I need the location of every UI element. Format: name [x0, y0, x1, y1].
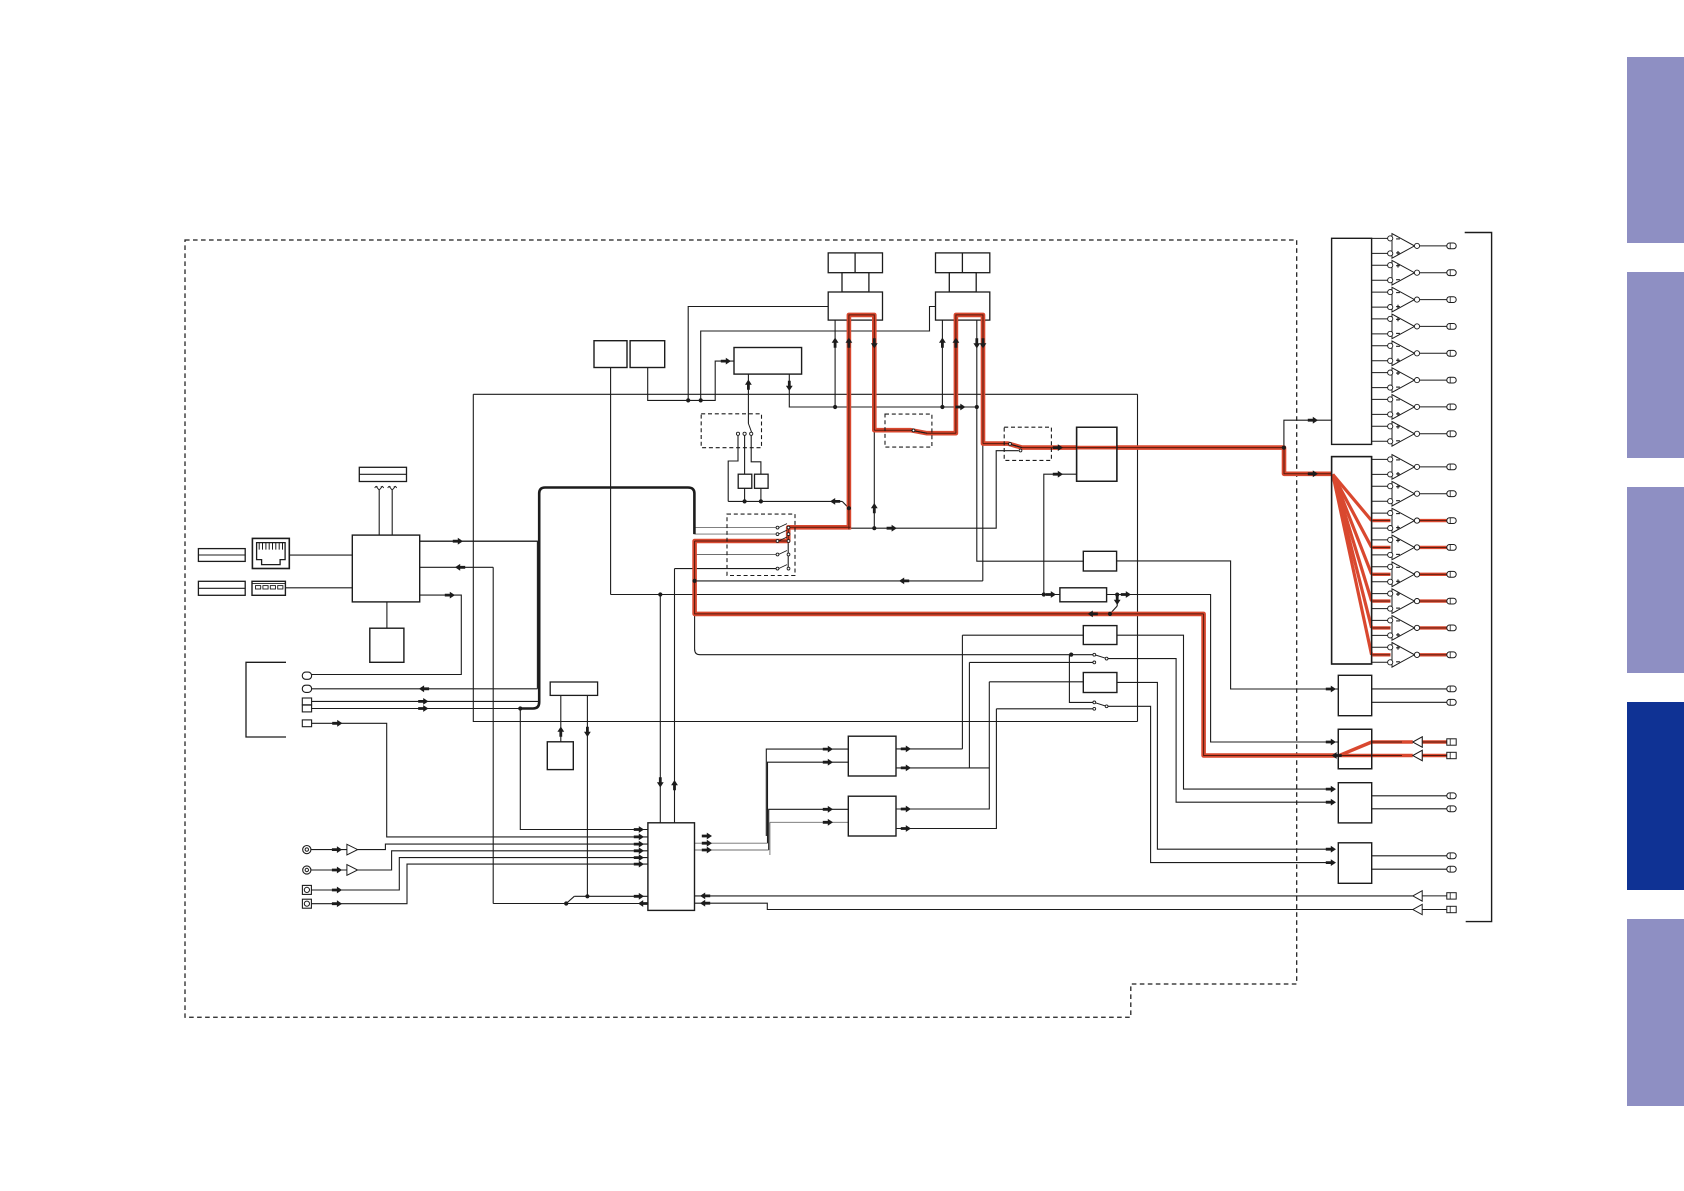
jack J8 — [302, 885, 311, 894]
wire jack J4 line — [312, 708, 521, 710]
arrow box B in1 — [1326, 739, 1336, 746]
wire box D out jack 2 — [1372, 868, 1447, 870]
RJ45 ethernet jack — [252, 538, 289, 568]
jack box C out1 — [1447, 793, 1456, 799]
arrow box A in — [1326, 686, 1336, 693]
wire effect box b drop — [760, 488, 762, 501]
2tr input amp row 2 — [1413, 904, 1422, 914]
wire CPU to sub box — [386, 602, 388, 628]
arrow M2 out2 — [901, 825, 911, 832]
channel switch row1 — [779, 524, 788, 528]
node alt join red — [693, 579, 697, 583]
effect box a — [738, 474, 752, 488]
wire bus top horizontal — [473, 393, 1137, 395]
wire USB to CPU — [285, 587, 352, 589]
wire fader1 black core drop — [873, 320, 875, 528]
arrow to jack J2 — [419, 685, 429, 692]
DAC1 row 8 amplifier and jack — [1372, 425, 1388, 427]
wire jack J9 to ADC — [311, 864, 648, 904]
DAC1 row 7 amplifier and jack — [1372, 398, 1388, 400]
wire DA1 input — [1284, 420, 1332, 447]
wire fader1 black drop A — [834, 320, 836, 407]
fader module 2 mid box — [949, 273, 976, 292]
arrow jack J4 line — [418, 705, 428, 712]
arrow black core up — [871, 503, 878, 513]
node comp stub top — [1115, 593, 1119, 597]
USB connector — [252, 581, 285, 595]
node red DA1 tap — [1282, 446, 1286, 450]
wire effect bus to fader1 lever — [728, 500, 842, 502]
arrow ADC in4 — [634, 847, 644, 854]
wire switch A drop — [1069, 655, 1093, 703]
wire SRC box to monitor A — [1117, 561, 1339, 689]
wire mixer1 out2 riser — [968, 662, 970, 768]
DAC2 row 8 amplifier and jack — [1372, 646, 1388, 648]
node J4 branch — [518, 706, 522, 710]
page tab bar 4 (active, dark) — [1627, 702, 1684, 890]
insert switch lever box1 — [748, 424, 751, 433]
channel switch row5 — [779, 565, 788, 569]
comp flat box — [1060, 588, 1107, 602]
output group bracket — [1465, 233, 1492, 922]
wire switch B out — [1108, 706, 1328, 862]
arrow ADC out to CPU — [638, 900, 648, 907]
channel switch row2 — [779, 530, 788, 534]
node red stub — [1108, 612, 1112, 616]
arrow fader2 red down — [980, 338, 987, 348]
fader module 2 lower box — [936, 292, 990, 320]
wire J4 branch down to ADC in1 — [520, 709, 648, 830]
wire J7 amp out — [358, 851, 648, 870]
monitor box A — [1338, 675, 1371, 715]
arrow main bus into comp — [1046, 591, 1056, 598]
red highlighted path: channel select to stereo bus — [695, 527, 1336, 755]
arrow ADC in3 — [634, 841, 644, 848]
arrow fader2 left up — [939, 338, 946, 348]
wire ADC in switch diagonal — [566, 896, 574, 903]
wire jack J3 line — [312, 700, 540, 702]
wire ST box right drop — [586, 695, 588, 896]
arrow DA2 red in — [1308, 470, 1318, 477]
jack box C out2 — [1447, 806, 1456, 812]
mixer box M2 — [848, 796, 896, 836]
wire main bus to comp box — [611, 594, 1060, 596]
gray ADC out 2 — [695, 842, 768, 844]
wire box T2 drop — [648, 361, 734, 400]
wire monitor line 5 — [674, 569, 676, 823]
arrow ADC in2 — [634, 834, 644, 841]
node bus407 b — [940, 405, 944, 409]
wire antenna 1 feed — [378, 490, 380, 535]
arrow J9 line — [332, 900, 342, 907]
node switchA feed — [1069, 653, 1073, 657]
node bus407 a — [833, 405, 837, 409]
wire RJ45 to CPU — [289, 554, 352, 556]
arrow DSP right out down — [786, 381, 793, 391]
arrow CPU out3 — [445, 592, 455, 599]
node main bus eq — [1042, 592, 1046, 596]
wire comp out stub down — [1116, 595, 1118, 607]
page tab bar 5 — [1627, 919, 1684, 1106]
jack J9 — [302, 899, 311, 908]
wire box A out jack 2 — [1372, 701, 1447, 703]
wire effect box a drop — [744, 488, 746, 501]
jack J3 — [302, 698, 311, 705]
wire line 5 horizontal — [675, 568, 778, 570]
wire box A out jack 1 — [1372, 688, 1447, 690]
box B input amp row 1 — [1413, 737, 1422, 747]
wire ADC return riser — [492, 567, 494, 903]
wire CPU out3 to jack J1 — [312, 595, 462, 674]
antenna 1 — [375, 486, 384, 490]
output select switch A — [1096, 655, 1106, 658]
arrow comp stub down — [1114, 595, 1121, 605]
node main bus adc — [658, 592, 662, 596]
rec box D — [1338, 843, 1371, 884]
wire monitor select feed h — [700, 654, 1069, 656]
node bus407 c — [975, 405, 979, 409]
arrow M1 in2 — [823, 759, 833, 766]
mixer box M1 — [848, 736, 896, 776]
red box B upper out — [1372, 740, 1402, 743]
wire antenna 2 feed — [391, 490, 393, 535]
arrow jack J3 line — [418, 698, 428, 705]
DAC1 row 5 amplifier and jack — [1372, 345, 1388, 347]
red U inside fader2 — [956, 315, 983, 322]
arrow M1 out2 — [901, 765, 911, 772]
wire switch A in stub — [1069, 654, 1093, 656]
dashed channel switch box 4 — [727, 514, 795, 575]
rec box C — [1338, 783, 1371, 823]
network connector bar 2 — [198, 581, 245, 595]
wire DSP right output down — [789, 374, 977, 407]
arrow ADC in6 — [634, 861, 644, 868]
channel switch row3 (red) — [779, 537, 788, 541]
link switch in box2 — [911, 430, 927, 433]
wire jack J8 to ADC — [311, 858, 648, 890]
arrow J8 line — [332, 887, 342, 894]
wire DSP left output riser — [747, 374, 749, 423]
wire switch common vertical — [787, 528, 789, 569]
arrow fader2 inner down — [973, 338, 980, 348]
wire ADC out-left to CPU riser — [493, 903, 648, 905]
wire grp box in h — [989, 681, 1083, 683]
DAC1 row 2 amplifier and jack — [1372, 264, 1388, 266]
wire box T1 drop to main bus — [610, 368, 612, 595]
grp box — [1083, 673, 1117, 693]
arrow ADC out1 — [702, 833, 712, 840]
2tr input amp row 1 — [1413, 891, 1422, 901]
wire fader2 inner black to SRC box — [977, 320, 1084, 561]
aux box — [1083, 626, 1117, 645]
arrow M1 out1 — [901, 746, 911, 753]
DAC2 row 2 amplifier and jack — [1372, 485, 1388, 487]
output select switch B — [1096, 703, 1106, 706]
wire ADC gray riser 1 — [766, 749, 827, 836]
wire ADC return to CPU in — [420, 566, 494, 568]
DSP control box — [734, 348, 802, 375]
wire alt path to red junction — [695, 580, 983, 582]
jack J2 (phones) — [302, 685, 311, 692]
arrow box C in1 — [1326, 786, 1336, 793]
effect box b — [755, 474, 769, 488]
arrow red into EQ — [1053, 444, 1063, 451]
channel switch row4 — [779, 551, 788, 555]
node core join — [872, 526, 876, 530]
jack box D out1 — [1447, 853, 1456, 859]
top box T1 — [594, 341, 627, 368]
arrow box B in2 left — [1332, 752, 1342, 759]
wire RCA jack J6 to ADC — [311, 849, 347, 851]
arrow ADC return1 into box — [700, 893, 710, 900]
wire stub lever to red — [1110, 606, 1117, 614]
EQ box — [1077, 427, 1117, 481]
wire box C out jack 1 — [1372, 795, 1447, 797]
node ADC in switch b — [564, 901, 568, 905]
wireless LCD display — [359, 467, 406, 481]
dashed link switch box 2 — [885, 414, 932, 447]
ST sub box — [547, 742, 573, 770]
arrow ADC out2 — [702, 840, 712, 847]
wire CPU out1 to jack J2 — [420, 541, 538, 689]
jack box D out2 — [1447, 866, 1456, 872]
wire bus vertical left — [473, 394, 1137, 721]
DAC1 row 3 amplifier and jack — [1372, 291, 1388, 293]
red pass inside EQ box — [1077, 446, 1117, 450]
arrow ADC return2 into box — [700, 900, 710, 907]
DAC1 row 4 amplifier and jack — [1372, 318, 1388, 320]
gray channel line 4 — [694, 554, 777, 556]
arrow ADC in7 — [634, 893, 644, 900]
arrow CPU out1 — [453, 538, 463, 545]
input group bracket — [246, 662, 286, 737]
antenna 2 — [388, 486, 397, 490]
wire bus branch down to ADC — [659, 595, 661, 823]
RCA jack J7 — [303, 866, 311, 874]
CPU box — [352, 535, 419, 602]
wire M2 out2 riser — [896, 709, 996, 829]
DAC1 row 6 amplifier and jack — [1372, 372, 1388, 374]
arrow box D in1 — [1326, 846, 1336, 853]
arrow DA1 in — [1308, 417, 1318, 424]
jack J1 (phones) — [302, 672, 311, 679]
arrow red long left — [1088, 611, 1098, 618]
wire insert switch drop 2 — [744, 435, 746, 474]
box B input amp row 2 — [1413, 750, 1422, 760]
jack box A out2 — [1447, 699, 1456, 705]
network connector bar 1 — [198, 549, 245, 562]
wire 2tr line 2 — [695, 903, 1413, 909]
wire switch A out — [1107, 659, 1328, 803]
ST flat box — [550, 682, 597, 695]
wire fader2 black drop A — [941, 320, 943, 407]
node ADC in switch a — [585, 894, 589, 898]
wire J6 amp out — [358, 844, 648, 850]
arrow ADC in1 — [634, 826, 644, 833]
wire mixer1 out1 riser — [961, 635, 963, 749]
wire M1 out2 — [896, 767, 989, 769]
arrow ST left up — [557, 727, 564, 737]
wire M1 in1 — [827, 748, 848, 750]
wire fader2 black core drop — [982, 320, 984, 581]
red highlighted path: fader1 U and link to fader2 — [849, 315, 1332, 530]
top box T2 — [630, 341, 665, 368]
arrow box C in2 — [1326, 799, 1336, 806]
fader module 1 lower box — [828, 292, 882, 320]
arrow DSP left out up — [745, 380, 752, 390]
wire M1out2 to switch A throw — [969, 661, 1093, 663]
monitor box B — [1338, 729, 1371, 769]
DAC1 box — [1332, 238, 1372, 444]
red diagonal inside box B — [1340, 742, 1372, 755]
wire ADC gray riser 3 — [769, 809, 849, 850]
page tab bar 1 — [1627, 57, 1684, 243]
node effect b — [759, 499, 763, 503]
fader module 2 top boxes — [936, 253, 990, 273]
wire insert switch drop 1 — [728, 435, 738, 501]
DAC1 row 1 amplifier and jack — [1372, 237, 1388, 239]
arrow jack J5 line — [332, 720, 342, 727]
wire CPU out1 stub — [420, 540, 538, 542]
DAC2 row 6 amplifier and jack — [1372, 593, 1388, 595]
arrow M2 in1 — [823, 806, 833, 813]
gray M2 in2 line — [770, 821, 848, 823]
comp stub switch — [1109, 613, 1112, 616]
wire monitor select feed — [694, 615, 696, 649]
dashed insert switch box 1 — [701, 414, 761, 448]
arrow effect bus — [830, 498, 840, 505]
wire insert switch drop 3 — [751, 435, 761, 474]
arrow EQ in2 — [1053, 471, 1063, 478]
dashed insert switch box 3 — [1004, 427, 1051, 460]
outer dashed border of mixer block — [185, 240, 1297, 1017]
node T2 bus b — [699, 398, 703, 402]
DAC2 row 7 amplifier and jack — [1372, 619, 1388, 621]
wire 2tr line 1 — [695, 895, 1413, 897]
ADC box — [648, 823, 695, 911]
monitor select feed corner — [695, 649, 700, 655]
jack J5 — [302, 720, 311, 727]
preamp J6 — [347, 844, 358, 855]
DAC2 row 5 amplifier and jack — [1372, 566, 1388, 568]
arrow comp out — [1121, 591, 1131, 598]
arrow ST right down — [584, 727, 591, 737]
arrow alt path left — [899, 578, 909, 585]
arrow line5 up — [671, 780, 678, 790]
arrow into CPU (return) — [455, 564, 465, 571]
arrow J6 line — [332, 846, 342, 853]
RCA jack J6 — [303, 846, 311, 854]
arrow ADC out3 — [702, 847, 712, 854]
arrow M2 out1 — [901, 806, 911, 813]
DAC2 box — [1332, 457, 1372, 664]
wire RCA jack J7 to ADC — [311, 869, 347, 871]
preamp J7 — [347, 865, 358, 876]
arrow fader1 right down — [871, 338, 878, 348]
gray channel line 2 — [694, 533, 777, 535]
page tab bar 3 — [1627, 487, 1684, 673]
arrow box D in2 — [1326, 859, 1336, 866]
jack box A out1 — [1447, 686, 1456, 692]
wire M2out2 to switch B throw — [996, 708, 1093, 710]
arrow DSP box in — [721, 358, 731, 365]
arrow M2 in2 — [823, 819, 833, 826]
arrow line branch down — [657, 777, 664, 787]
wire grp box in — [896, 682, 989, 809]
red through box B — [1338, 754, 1402, 757]
wire ADC gray riser 2 — [768, 762, 849, 843]
wire M1 out1 — [896, 748, 962, 750]
DAC2 row 4 amplifier and jack — [1372, 539, 1388, 541]
wire branch to fader1 input — [688, 307, 828, 401]
wire aux box out — [1117, 635, 1328, 789]
memory box below CPU — [370, 628, 404, 662]
bold highlighted source path from jack J4 — [520, 488, 694, 709]
red fan inside DAC2 — [1333, 474, 1372, 520]
wire ST box left drop — [560, 695, 562, 741]
gray ADC out 3 — [695, 849, 769, 851]
dark core of red wires — [848, 315, 850, 530]
wire box C out jack 2 — [1372, 808, 1447, 810]
wire comp box out — [1107, 595, 1339, 743]
arrow fader1 red up — [846, 338, 853, 348]
gray channel line 1 — [694, 527, 777, 529]
arrow ADC in5 — [634, 854, 644, 861]
node red lever — [847, 506, 851, 510]
page tab bar 2 — [1627, 272, 1684, 458]
arrow bus407 — [955, 404, 965, 411]
wire jack J5 line to ADC riser — [312, 723, 648, 837]
wire ADC in from switch — [574, 895, 648, 897]
gray ADC riser 4 — [769, 822, 771, 855]
red U inside fader1 — [849, 315, 874, 322]
jack J4 — [302, 705, 311, 712]
wire red branch to insert throw — [849, 451, 1019, 529]
fader module 1 top boxes — [828, 253, 882, 273]
wire box D out jack 1 — [1372, 855, 1447, 857]
node effect a — [743, 499, 747, 503]
wire bus branch up to EQ box — [1044, 474, 1077, 594]
arrow J7 line — [332, 867, 342, 874]
arrow fader1 left up — [832, 338, 839, 348]
insert switch in box3 — [1008, 444, 1022, 448]
ADC input select switch — [565, 902, 568, 905]
wire grp box out — [1117, 682, 1328, 849]
wire aux box in — [962, 634, 1083, 636]
arrow M1 in1 — [823, 746, 833, 753]
arrow red branch right — [887, 525, 897, 532]
wire lever to red leg — [842, 501, 849, 508]
DAC2 row 1 amplifier and jack — [1372, 458, 1388, 460]
arrow fader2 red up — [953, 338, 960, 348]
fader module 1 mid box — [842, 273, 869, 292]
DAC2 row 3 amplifier and jack — [1372, 512, 1388, 514]
wire branch to fader2 input — [701, 307, 936, 401]
wire jack J2 line — [312, 688, 538, 690]
SRC box — [1083, 551, 1116, 571]
wire bus vertical right riser — [1137, 394, 1139, 721]
node T2 bus a — [686, 398, 690, 402]
